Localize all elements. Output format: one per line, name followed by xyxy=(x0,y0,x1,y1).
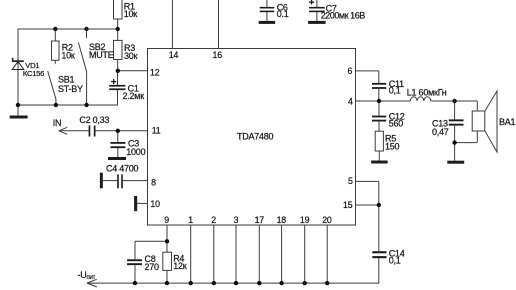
svg-text:IN: IN xyxy=(53,118,62,128)
svg-text:10: 10 xyxy=(150,199,160,209)
svg-text:C4 4700: C4 4700 xyxy=(106,164,139,174)
svg-text:2.2мк: 2.2мк xyxy=(123,91,145,101)
svg-text:ST-BY: ST-BY xyxy=(58,84,83,94)
svg-text:15: 15 xyxy=(343,200,353,210)
svg-text:10к: 10к xyxy=(61,50,75,60)
svg-text:270: 270 xyxy=(145,262,160,272)
svg-text:MUTE: MUTE xyxy=(89,50,114,60)
svg-text:12к: 12к xyxy=(173,261,187,271)
svg-text:16: 16 xyxy=(213,50,223,60)
svg-text:0,1: 0,1 xyxy=(389,256,401,266)
svg-text:0,47: 0,47 xyxy=(432,127,449,137)
svg-text:5: 5 xyxy=(348,176,353,186)
svg-text:L1 60мкГн: L1 60мкГн xyxy=(407,88,447,98)
svg-text:18: 18 xyxy=(277,215,287,225)
svg-text:C2 0,33: C2 0,33 xyxy=(79,115,109,125)
svg-text:TDA7480: TDA7480 xyxy=(237,131,274,141)
svg-text:1: 1 xyxy=(188,215,193,225)
svg-text:BA1: BA1 xyxy=(499,117,516,127)
svg-text:0.1: 0.1 xyxy=(277,9,289,19)
svg-text:2200мк 16В: 2200мк 16В xyxy=(321,10,366,20)
svg-text:11: 11 xyxy=(152,126,161,136)
svg-text:560: 560 xyxy=(389,119,404,129)
svg-text:9: 9 xyxy=(164,215,169,225)
svg-text:1000: 1000 xyxy=(126,147,145,157)
svg-text:0,1: 0,1 xyxy=(389,86,401,96)
svg-text:30к: 30к xyxy=(124,51,138,61)
svg-text:14: 14 xyxy=(169,50,179,60)
svg-text:КС156: КС156 xyxy=(23,69,44,78)
svg-text:10к: 10к xyxy=(124,9,138,19)
svg-text:12: 12 xyxy=(150,68,160,78)
svg-text:2: 2 xyxy=(211,215,216,225)
svg-text:20: 20 xyxy=(322,215,332,225)
svg-text:4: 4 xyxy=(348,96,353,106)
svg-text:150: 150 xyxy=(385,141,400,151)
svg-text:19: 19 xyxy=(300,215,310,225)
svg-text:6: 6 xyxy=(348,66,353,76)
svg-text:8: 8 xyxy=(151,177,156,187)
svg-text:17: 17 xyxy=(255,215,265,225)
svg-text:3: 3 xyxy=(234,215,239,225)
